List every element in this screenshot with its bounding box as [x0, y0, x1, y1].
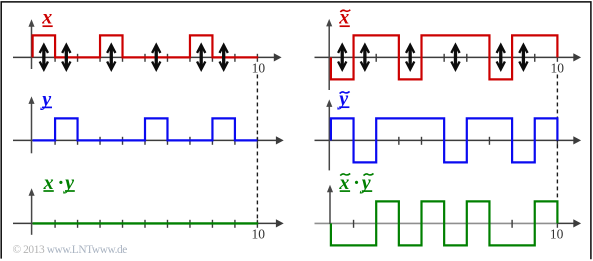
svg-text:10: 10: [251, 227, 265, 242]
svg-text:·: ·: [58, 172, 63, 194]
svg-text:·: ·: [354, 172, 359, 194]
svg-text:10: 10: [550, 61, 564, 76]
svg-text:10: 10: [550, 227, 564, 242]
svg-text:x: x: [41, 7, 52, 29]
svg-text:© 2013 www.LNTwww.de: © 2013 www.LNTwww.de: [13, 244, 128, 256]
svg-text:10: 10: [252, 61, 266, 76]
